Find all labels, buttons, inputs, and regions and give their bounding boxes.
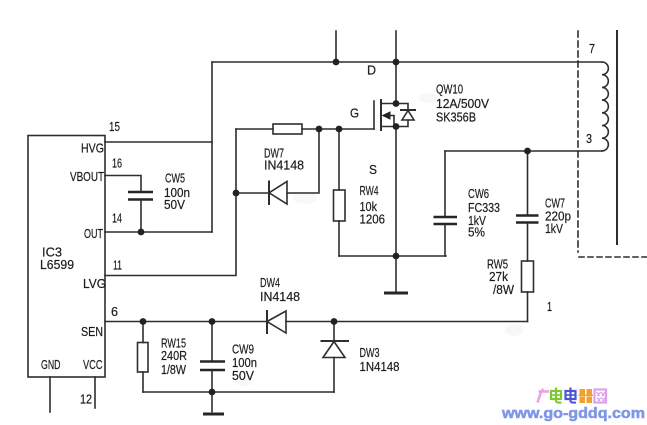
svg-text:DW4: DW4: [260, 275, 280, 290]
svg-text:IN4148: IN4148: [264, 158, 304, 173]
svg-text:6: 6: [111, 304, 118, 319]
svg-text:L6599: L6599: [40, 257, 74, 272]
svg-text:/8W: /8W: [493, 282, 515, 297]
svg-text:7: 7: [589, 41, 595, 56]
svg-text:www.go-gddq.com: www.go-gddq.com: [501, 405, 645, 422]
svg-text:GND: GND: [41, 357, 61, 372]
svg-text:14: 14: [112, 211, 122, 226]
svg-text:QW10: QW10: [436, 82, 463, 97]
svg-text:16: 16: [112, 156, 122, 171]
svg-text:15: 15: [109, 119, 120, 134]
svg-text:1kV: 1kV: [545, 221, 563, 236]
svg-text:12: 12: [80, 392, 92, 407]
svg-text:DW3: DW3: [360, 345, 380, 360]
svg-text:LVG: LVG: [83, 276, 106, 291]
svg-text:IN4148: IN4148: [260, 289, 300, 304]
svg-text:VCC: VCC: [83, 357, 103, 372]
svg-text:CW5: CW5: [165, 171, 185, 186]
svg-text:50V: 50V: [164, 197, 185, 212]
svg-text:50V: 50V: [232, 368, 254, 383]
svg-text:SK356B: SK356B: [436, 110, 476, 125]
svg-text:240R: 240R: [161, 348, 187, 363]
svg-text:5%: 5%: [468, 225, 485, 240]
svg-text:11: 11: [113, 258, 122, 273]
svg-text:D: D: [367, 63, 376, 78]
svg-text:OUT: OUT: [84, 226, 103, 241]
svg-text:1N4148: 1N4148: [360, 359, 400, 374]
svg-text:S: S: [369, 162, 377, 177]
svg-text:RW4: RW4: [360, 183, 379, 198]
svg-text:HVG: HVG: [81, 141, 104, 156]
svg-text:1/8W: 1/8W: [161, 362, 187, 377]
svg-text:SEN: SEN: [81, 324, 103, 339]
svg-text:1206: 1206: [360, 212, 386, 227]
svg-text:3: 3: [586, 131, 592, 146]
svg-text:G: G: [350, 106, 359, 121]
svg-text:CW6: CW6: [468, 186, 489, 201]
svg-text:1: 1: [547, 299, 552, 314]
svg-text:VBOUT: VBOUT: [70, 169, 104, 184]
